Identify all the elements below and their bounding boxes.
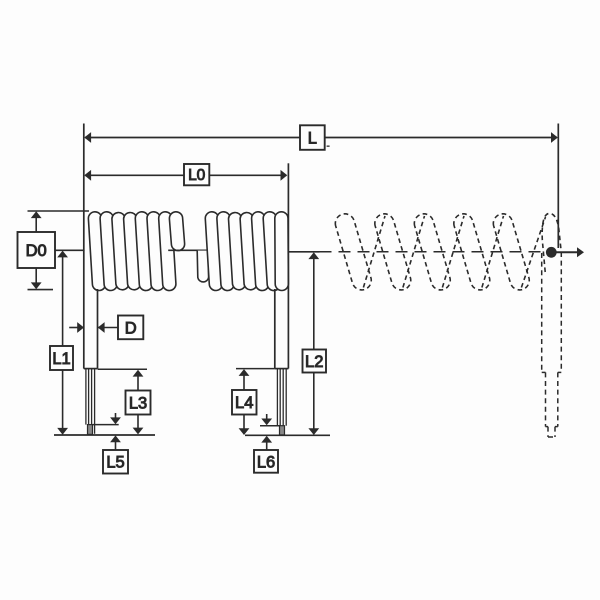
L dimension left extension line — [83, 124, 85, 251]
dashed centerline — [320, 251, 547, 253]
svg-text:L6: L6 — [257, 453, 275, 471]
right coil turn 2 — [217, 212, 234, 291]
L0 dimension line — [85, 174, 287, 176]
L5 dimension — [115, 413, 117, 418]
label D0 — [18, 232, 56, 268]
bottom reference line right — [245, 434, 330, 436]
L6 top extension line — [260, 425, 280, 427]
right leg wire bottom — [275, 368, 289, 370]
L4 top extension line — [236, 368, 275, 370]
L4 dimension — [243, 374, 245, 390]
wire tail to centerline — [288, 251, 319, 253]
left coil turn 7 — [159, 212, 176, 291]
stray tick — [327, 145, 330, 147]
label L1 — [50, 346, 73, 370]
left coil turn 1 — [88, 212, 105, 291]
D0 centerline to coil — [55, 249, 84, 251]
diagonal connectors between turns — [363, 216, 385, 288]
L2 dimension — [313, 257, 315, 350]
right coil turn 5 — [252, 212, 269, 291]
svg-text:L1: L1 — [52, 350, 70, 368]
D0 up arrow — [35, 216, 37, 232]
left coil end half-turn — [169, 212, 184, 251]
right leg stripped section — [277, 369, 286, 426]
L3 top extension line — [98, 368, 147, 370]
left coil turn 2 — [100, 212, 117, 291]
right coil (solid close-wound) — [197, 212, 288, 291]
D0 bottom extension line — [28, 289, 54, 291]
svg-text:L4: L4 — [235, 394, 253, 412]
label L2 — [303, 350, 327, 373]
left leg stripped section — [86, 369, 95, 434]
L3 dimension — [137, 375, 139, 391]
right coil turn 7 — [275, 212, 289, 291]
node dot — [546, 247, 557, 258]
svg-text:L: L — [308, 130, 317, 148]
left coil (solid close-wound) — [88, 212, 184, 291]
right leg wire left edge — [274, 289, 276, 369]
label L0 — [184, 164, 209, 185]
dashed leg tip stub — [547, 427, 549, 437]
right coil turn 3 — [229, 213, 246, 290]
L dimension right extension line — [557, 124, 559, 249]
left coil turn 3 — [112, 213, 129, 290]
right coil turn 1 — [205, 212, 222, 291]
last turn merging into leg — [542, 213, 561, 272]
label L6 — [254, 450, 278, 473]
right leg wire right edge — [287, 252, 289, 369]
label D — [118, 316, 143, 340]
L6 dimension — [266, 414, 268, 419]
D0 top extension line (coil top) — [28, 210, 90, 212]
right coil turn 6 — [263, 212, 280, 291]
right leg tip stub — [280, 426, 285, 435]
D dimension arrows — [69, 327, 78, 329]
wire between coils — [168, 249, 208, 251]
L1 dimension — [62, 255, 64, 346]
svg-text:L5: L5 — [106, 454, 124, 472]
dashed leg narrow section — [545, 372, 547, 426]
left leg wire right edge — [97, 289, 99, 369]
label L4 — [232, 390, 257, 415]
svg-text:D0: D0 — [26, 242, 47, 260]
stretched coil (dashed loop turns) — [335, 213, 561, 290]
bottom reference line left — [54, 434, 155, 436]
label L3 — [126, 391, 151, 415]
right coil start half-turn — [197, 251, 208, 282]
svg-text:L0: L0 — [188, 167, 206, 184]
right coil turn 4 — [240, 213, 257, 290]
direction arrow — [556, 251, 578, 253]
svg-text:L3: L3 — [129, 394, 147, 412]
D0 down arrow — [35, 268, 37, 285]
L dimension line — [85, 137, 557, 139]
left coil turn 5 — [135, 212, 152, 291]
L0 right extension line — [287, 163, 289, 252]
left leg wire bottom — [84, 368, 98, 370]
L5 top extension line — [93, 424, 119, 426]
left coil turn 6 — [147, 212, 164, 291]
left leg wire left edge — [83, 250, 85, 369]
left coil turn 4 — [124, 213, 141, 290]
label L — [300, 125, 325, 150]
left leg tip stub — [88, 425, 93, 435]
dashed leg wide section — [542, 252, 562, 437]
svg-text:L2: L2 — [305, 353, 323, 371]
label L5 — [103, 450, 128, 474]
svg-text:D: D — [125, 319, 137, 337]
